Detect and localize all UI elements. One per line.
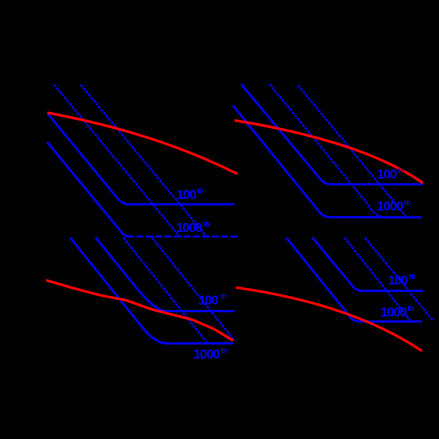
label 1000th (BR) bbox=[381, 304, 415, 319]
red curve (TR) bbox=[235, 120, 423, 183]
dotted diagonal asymptote 2 (BL) bbox=[152, 237, 234, 340]
thick blue curve 100th (TR) with horizontal floor bbox=[241, 84, 423, 184]
dotted diagonal asymptote 2 (TR) bbox=[298, 85, 406, 216]
thick blue curve 1000th (TL) diagonal and bend bbox=[47, 142, 130, 237]
svg-text:100: 100 bbox=[177, 187, 197, 202]
svg-text:th: th bbox=[221, 348, 228, 355]
dotted diagonal asymptote A (TL) bbox=[54, 85, 180, 238]
thick blue curve 1000th (TR) with horizontal floor bbox=[233, 106, 422, 218]
svg-text:th: th bbox=[409, 274, 416, 281]
dashed floor 1000th (TL) bbox=[127, 236, 240, 238]
thick blue curve 100th (BR) with horizontal floor bbox=[312, 237, 423, 291]
svg-text:1000: 1000 bbox=[381, 304, 407, 319]
red curve (TL) bbox=[47, 113, 237, 174]
dotted diagonal asymptote B (TL) bbox=[81, 85, 208, 238]
svg-text:th: th bbox=[198, 189, 205, 196]
svg-text:1000: 1000 bbox=[176, 220, 202, 235]
label 100th (BR) bbox=[388, 273, 416, 288]
label 1000th (BL) bbox=[194, 347, 228, 362]
thick blue curve 1000th (BR) with horizontal floor bbox=[286, 238, 422, 322]
dotted diagonal asymptote 4 (BR) bbox=[365, 237, 433, 320]
thick blue curve 1000th (BL) with horizontal floor bbox=[70, 237, 233, 343]
label 1000th (TR) bbox=[377, 199, 411, 214]
thick blue curve 100th (BL) with horizontal floor bbox=[96, 238, 235, 312]
svg-text:th: th bbox=[408, 306, 415, 313]
label 100th (TR) bbox=[377, 167, 405, 182]
dotted diagonal asymptote 1 (TR) bbox=[269, 84, 381, 216]
red curve (BR) bbox=[236, 288, 422, 352]
svg-text:th: th bbox=[220, 294, 227, 301]
svg-text:100: 100 bbox=[199, 293, 219, 308]
label 100th (TL) bbox=[177, 187, 205, 202]
thick blue curve 100th (TL) with horizontal floor bbox=[48, 114, 235, 204]
svg-text:1000: 1000 bbox=[194, 347, 220, 362]
red curve (BL) bbox=[46, 280, 233, 340]
svg-text:100: 100 bbox=[388, 273, 408, 288]
label 100th (BL) bbox=[199, 293, 227, 308]
svg-text:100: 100 bbox=[377, 167, 397, 182]
svg-text:th: th bbox=[398, 168, 405, 175]
svg-text:th: th bbox=[404, 200, 411, 207]
label 1000th (TL) bbox=[176, 220, 210, 235]
dotted diagonal asymptote 3 (BR) bbox=[344, 237, 411, 321]
svg-text:1000: 1000 bbox=[377, 199, 403, 214]
svg-text:th: th bbox=[203, 222, 210, 229]
dotted diagonal asymptote 1 (BL) bbox=[123, 237, 208, 344]
